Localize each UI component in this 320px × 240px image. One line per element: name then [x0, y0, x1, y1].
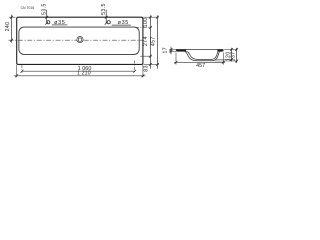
svg-text:CN 7016: CN 7016 — [21, 6, 35, 10]
svg-text:53.5: 53.5 — [101, 3, 107, 15]
svg-text:240: 240 — [5, 22, 11, 32]
svg-text:457: 457 — [150, 36, 156, 46]
svg-text:53.5: 53.5 — [41, 3, 47, 15]
svg-text:ø35: ø35 — [54, 20, 65, 26]
svg-text:17: 17 — [162, 47, 168, 54]
svg-text:1 210: 1 210 — [77, 71, 91, 77]
svg-text:457: 457 — [196, 63, 205, 69]
svg-text:ø35: ø35 — [118, 20, 129, 26]
svg-text:83: 83 — [144, 65, 150, 72]
svg-text:100: 100 — [143, 17, 149, 27]
svg-text:274: 274 — [143, 36, 149, 46]
